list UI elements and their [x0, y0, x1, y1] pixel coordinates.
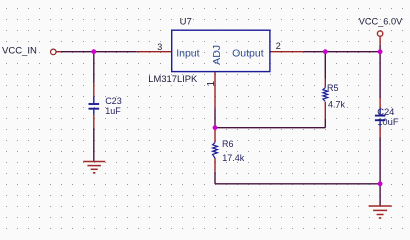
- svg-text:3: 3: [157, 42, 162, 52]
- svg-text:C23: C23: [105, 96, 122, 106]
- svg-text:4.7k: 4.7k: [328, 100, 346, 110]
- svg-text:U7: U7: [180, 16, 192, 27]
- svg-text:LM317LIPK: LM317LIPK: [148, 73, 198, 84]
- svg-text:R5: R5: [327, 83, 339, 93]
- svg-text:17.4k: 17.4k: [222, 153, 245, 163]
- svg-text:Input: Input: [176, 48, 199, 60]
- svg-text:2: 2: [276, 41, 281, 51]
- svg-text:VCC_6.0V: VCC_6.0V: [359, 16, 403, 26]
- svg-text:VCC_IN: VCC_IN: [2, 46, 37, 57]
- svg-text:Output: Output: [232, 48, 264, 60]
- svg-text:1uF: 1uF: [105, 106, 121, 116]
- svg-text:ADJ: ADJ: [211, 45, 223, 65]
- svg-text:10uF: 10uF: [377, 116, 399, 127]
- svg-text:1: 1: [206, 81, 217, 87]
- svg-text:R6: R6: [222, 139, 234, 149]
